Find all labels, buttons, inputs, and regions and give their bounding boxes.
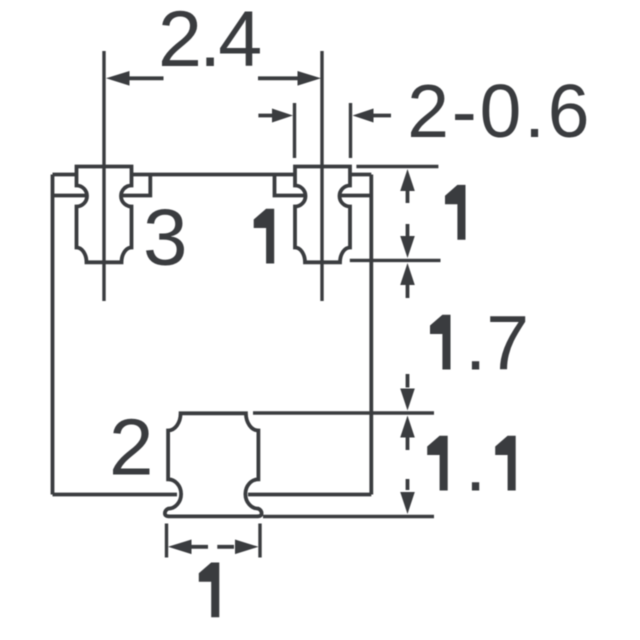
pad label 1 (digit drawn as path, helvetica-style no-serif one) bbox=[254, 209, 275, 264]
svg-text:2.4: 2.4 bbox=[158, 0, 260, 83]
arrowhead bottom-1 left bbox=[168, 540, 192, 555]
extension line 0.6 right bbox=[349, 103, 352, 158]
arrowhead dim1.1 up bbox=[400, 416, 415, 438]
centerline pad 3 bbox=[102, 51, 105, 301]
dim 1 right stems bbox=[406, 191, 410, 236]
centerline pad 1 bbox=[320, 51, 323, 301]
arrowhead dim1 up bbox=[400, 169, 415, 191]
terminal tab line right of pad 1 bbox=[338, 194, 371, 198]
dimension text 1 (bottom) bbox=[199, 563, 220, 618]
svg-text:3: 3 bbox=[143, 193, 188, 282]
right ext line at pad2 top bbox=[253, 411, 434, 414]
dimension text 1.7 bbox=[430, 315, 451, 370]
svg-text:.7: .7 bbox=[465, 301, 529, 387]
svg-text:2-0.6: 2-0.6 bbox=[407, 69, 592, 153]
arrowhead dim1.7 up bbox=[400, 263, 415, 285]
arrowhead dim1.1 down bbox=[400, 492, 415, 514]
svg-text:2: 2 bbox=[109, 403, 154, 492]
arrowhead dim1.7 down bbox=[400, 389, 415, 411]
pad 2 (bottom terminal) bbox=[165, 413, 262, 516]
dimension text 1 (right) bbox=[445, 185, 466, 240]
pad 1 (top-right terminal) bbox=[295, 167, 350, 263]
terminal tab line left of pad 1 with step bbox=[275, 175, 308, 196]
dim 1.1 stems bbox=[406, 438, 410, 491]
right ext line at pad2 bottom bbox=[263, 515, 434, 518]
bottom dim 1 tails bbox=[191, 545, 234, 549]
body outline (component square) bbox=[53, 175, 372, 495]
dimension line 2.4 bbox=[129, 76, 298, 80]
dim 1.7 stems bbox=[406, 285, 410, 388]
arrowhead 0.6 right bbox=[353, 109, 374, 123]
arrowhead 2.4 left bbox=[106, 71, 130, 86]
right ext line at pad bottom bbox=[350, 259, 441, 262]
right ext line at pad top bbox=[356, 165, 438, 168]
arrowhead 2.4 right bbox=[298, 71, 322, 86]
dimension text 1.1 bbox=[427, 436, 448, 491]
terminal tab line left of pad 3 bbox=[53, 194, 89, 198]
arrowhead 0.6 left bbox=[272, 109, 293, 123]
extension line 0.6 left bbox=[293, 103, 296, 158]
bottom dim 1 ext lines bbox=[167, 524, 261, 558]
arrowhead bottom-1 right bbox=[235, 540, 259, 555]
terminal tab line right of pad 3 with step bbox=[120, 175, 150, 196]
arrowhead dim1 down bbox=[400, 236, 415, 258]
dimension line 0.6 tails bbox=[258, 114, 391, 118]
pad 3 (top-left terminal) bbox=[77, 167, 132, 263]
svg-text:.: . bbox=[465, 422, 486, 508]
